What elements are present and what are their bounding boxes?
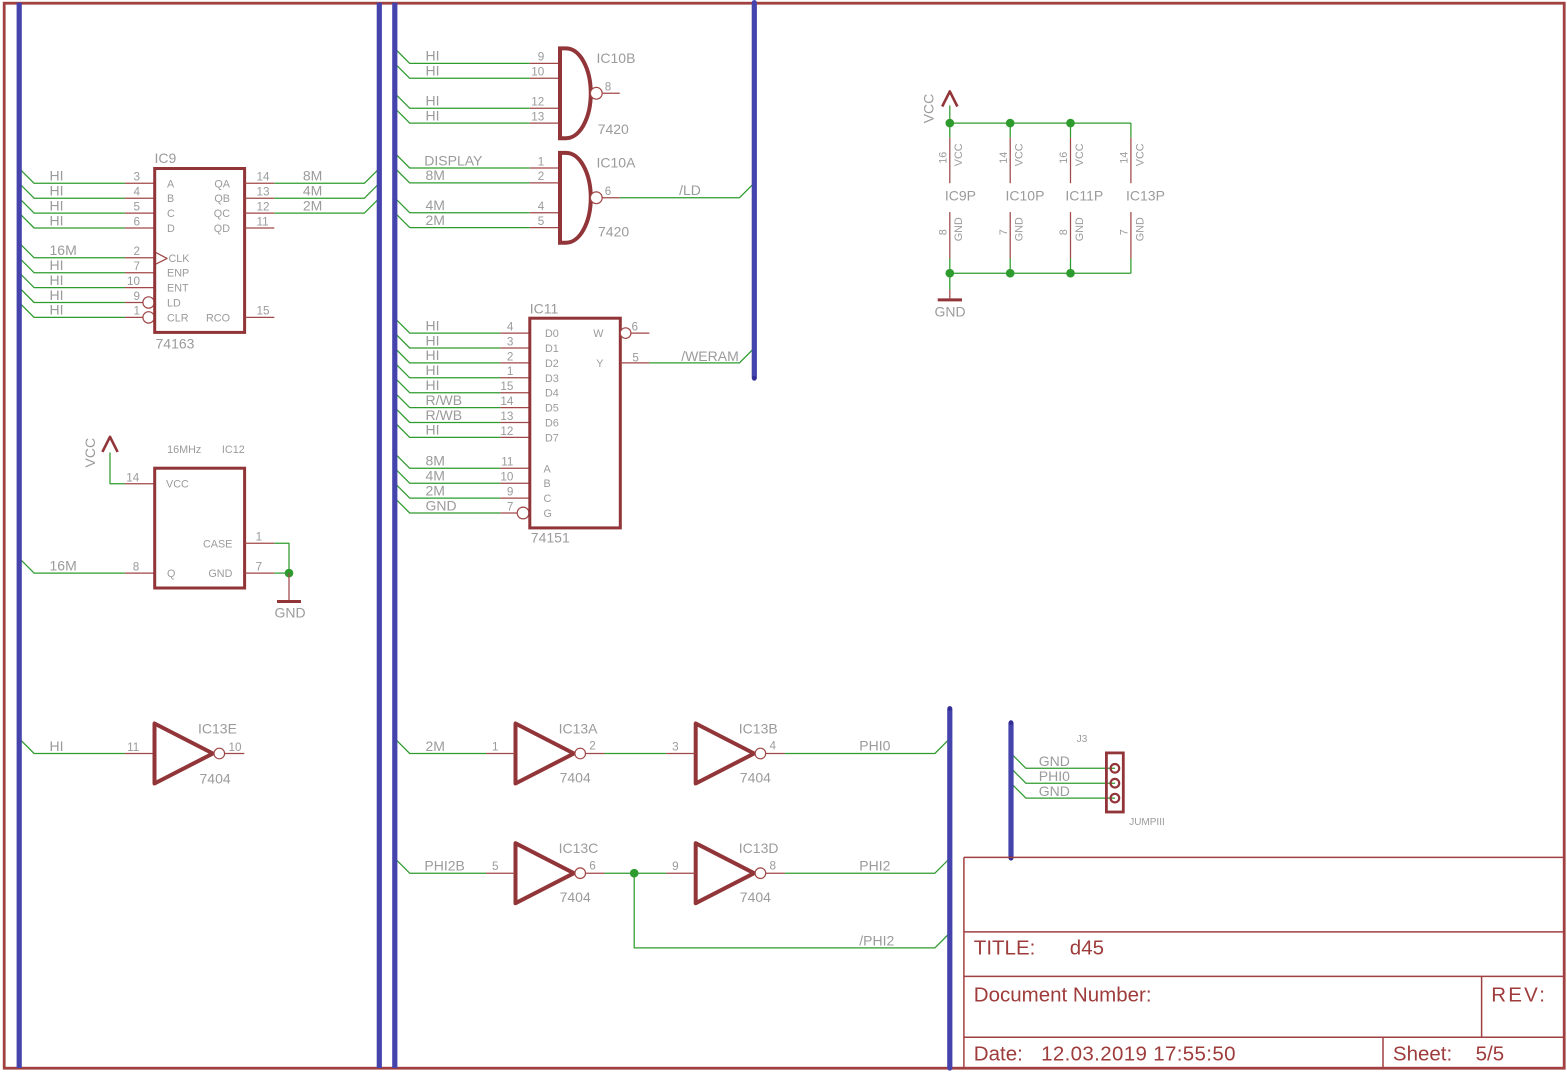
wire GND drop IC11P bbox=[1070, 259, 1072, 274]
wire VCC stem bbox=[949, 106, 951, 124]
wire IC12 CASE to GND bbox=[274, 543, 289, 573]
svg-text:14: 14 bbox=[500, 395, 514, 408]
pin 8 IC11P GND bbox=[1058, 212, 1086, 258]
svg-text:G: G bbox=[544, 508, 552, 520]
ground GND symbol (rail) bbox=[935, 290, 966, 320]
bus upper right vertical bbox=[752, 3, 757, 381]
pin 6 IC13C output bbox=[586, 872, 605, 874]
svg-text:7: 7 bbox=[1119, 229, 1131, 235]
svg-text:CLK: CLK bbox=[169, 253, 191, 265]
svg-text:4M: 4M bbox=[426, 197, 445, 213]
svg-text:16: 16 bbox=[937, 152, 949, 164]
svg-text:HI: HI bbox=[50, 212, 64, 228]
svg-text:LD: LD bbox=[167, 298, 181, 310]
svg-text:ENT: ENT bbox=[167, 283, 189, 295]
wire HI to IC10B pin 9 bbox=[395, 49, 530, 64]
pin 3 IC13B input bbox=[666, 753, 696, 755]
wire HI to IC11 pin 4 (D0) bbox=[395, 318, 501, 333]
pin 2 IC9 CLK bbox=[125, 257, 155, 259]
svg-text:8: 8 bbox=[770, 859, 777, 872]
svg-text:D2: D2 bbox=[545, 358, 559, 370]
svg-text:13: 13 bbox=[531, 110, 544, 123]
wire HI to IC9 pin 7 (ENP) bbox=[19, 258, 125, 273]
svg-text:2M: 2M bbox=[426, 212, 445, 228]
NAND gate IC10B 7420 body bbox=[558, 48, 602, 138]
svg-text:HI: HI bbox=[50, 183, 64, 199]
wire HI to IC11 pin 12 (D7) bbox=[395, 423, 501, 438]
wire HI to IC11 pin 1 (D3) bbox=[395, 363, 501, 378]
svg-text:ENP: ENP bbox=[167, 268, 189, 280]
svg-text:6: 6 bbox=[632, 321, 639, 334]
pin 1 IC12 CASE bbox=[245, 542, 275, 544]
pin 1 IC13A input bbox=[486, 753, 516, 755]
svg-text:14: 14 bbox=[998, 152, 1010, 164]
svg-text:7: 7 bbox=[133, 260, 140, 273]
pin 14 IC9 QA bbox=[245, 182, 275, 184]
pin 14 IC11 D5 bbox=[500, 407, 529, 409]
svg-text:3: 3 bbox=[672, 740, 679, 753]
svg-text:IC10A: IC10A bbox=[597, 155, 637, 171]
svg-text:2M: 2M bbox=[426, 738, 445, 754]
svg-text:12: 12 bbox=[257, 200, 270, 213]
wire R/WB to IC11 pin 14 (D5) bbox=[395, 393, 501, 408]
junction VCC rail 3 bbox=[1066, 119, 1075, 128]
svg-text:IC13P: IC13P bbox=[1126, 188, 1165, 204]
svg-text:D0: D0 bbox=[545, 328, 559, 340]
wire HI to IC9 pin 5 (C) bbox=[19, 198, 125, 213]
svg-text:8M: 8M bbox=[303, 168, 322, 184]
wire HI to IC9 pin 3 (A) bbox=[19, 168, 125, 183]
wire R/WB to IC11 pin 13 (D6) bbox=[395, 408, 501, 423]
svg-text:IC11P: IC11P bbox=[1065, 188, 1103, 204]
title block frame bbox=[964, 857, 1564, 1067]
pin 5 IC13C input bbox=[486, 872, 516, 874]
svg-text:QB: QB bbox=[214, 193, 230, 205]
pin 14 IC12 VCC bbox=[125, 483, 155, 485]
bus middle vertical 1 bbox=[377, 3, 382, 1068]
svg-text:/WERAM: /WERAM bbox=[681, 348, 739, 364]
inverter IC13D 7404 bbox=[696, 843, 766, 903]
pin 11 IC9 QD bbox=[245, 227, 275, 229]
svg-text:8: 8 bbox=[1058, 229, 1070, 235]
wire VCC drop IC13P bbox=[1130, 123, 1132, 138]
svg-text:D5: D5 bbox=[545, 403, 559, 415]
svg-text:1: 1 bbox=[507, 365, 514, 378]
svg-text:IC13C: IC13C bbox=[559, 840, 599, 856]
svg-text:D6: D6 bbox=[545, 418, 559, 430]
svg-text:10: 10 bbox=[127, 275, 141, 288]
svg-text:5: 5 bbox=[133, 200, 140, 213]
ground GND symbol (IC12) bbox=[275, 573, 306, 620]
svg-text:4: 4 bbox=[770, 740, 777, 753]
svg-text:7404: 7404 bbox=[740, 889, 771, 905]
bus middle vertical 2 bbox=[392, 3, 397, 1068]
svg-text:HI: HI bbox=[50, 257, 64, 273]
svg-text:HI: HI bbox=[426, 107, 440, 123]
svg-text:J3: J3 bbox=[1077, 734, 1088, 745]
svg-text:5/5: 5/5 bbox=[1476, 1042, 1505, 1065]
svg-text:2: 2 bbox=[538, 170, 545, 183]
pin 8 IC10B output bbox=[602, 92, 620, 94]
title block Document Number row bbox=[974, 983, 1547, 1006]
pin 5 IC9 C bbox=[125, 212, 155, 214]
wire GND drop IC13P bbox=[1130, 259, 1132, 274]
wire GND to IC11 pin 7 (G) bbox=[395, 498, 501, 513]
svg-text:GND: GND bbox=[426, 497, 457, 513]
pin 14 IC13P VCC bbox=[1119, 138, 1147, 184]
svg-text:VCC: VCC bbox=[82, 438, 98, 468]
svg-text:CLR: CLR bbox=[167, 312, 189, 324]
pin 8 IC9P GND bbox=[937, 212, 965, 258]
pin 10 IC10B bbox=[530, 77, 560, 79]
svg-text:4: 4 bbox=[538, 200, 545, 213]
wire 16M to IC12 pin 8 bbox=[19, 558, 125, 573]
junction GND rail 1 bbox=[946, 269, 955, 278]
wire HI to IC9 pin 1 (CLR) bbox=[19, 303, 125, 318]
wire HI to IC11 pin 2 (D2) bbox=[395, 348, 501, 363]
svg-text:GND: GND bbox=[1134, 217, 1146, 241]
svg-text:3: 3 bbox=[507, 335, 514, 348]
svg-text:Document Number:: Document Number: bbox=[974, 983, 1152, 1006]
pin 7 IC13P GND bbox=[1119, 212, 1147, 258]
pin 7 IC10P GND bbox=[998, 212, 1026, 258]
svg-text:HI: HI bbox=[426, 317, 440, 333]
svg-text:9: 9 bbox=[133, 290, 140, 303]
svg-text:5: 5 bbox=[492, 860, 499, 873]
svg-text:7: 7 bbox=[507, 500, 514, 513]
svg-text:4: 4 bbox=[133, 186, 140, 199]
pin 13 IC9 QB bbox=[245, 197, 275, 199]
wire VCC drop IC9P bbox=[949, 123, 951, 138]
pin 12 IC10B bbox=[530, 107, 560, 109]
pin 16 IC11P VCC bbox=[1058, 138, 1086, 184]
wire GND to J3 pin 1 bbox=[1011, 753, 1115, 768]
svg-text:JUMPIII: JUMPIII bbox=[1129, 817, 1165, 828]
svg-text:R/WB: R/WB bbox=[426, 407, 463, 423]
pin 6 IC10A output bbox=[602, 197, 620, 199]
svg-text:HI: HI bbox=[50, 738, 64, 754]
svg-text:8: 8 bbox=[605, 81, 612, 94]
pin 10 IC11 B bbox=[500, 482, 529, 484]
svg-text:D4: D4 bbox=[545, 388, 559, 400]
wire PHI2B to IC13C pin 5 bbox=[395, 858, 486, 873]
pin 5 IC11 Y output bbox=[620, 362, 649, 364]
bus lower right vertical bbox=[947, 706, 952, 1068]
svg-text:IC10P: IC10P bbox=[1006, 188, 1045, 204]
wire VCC drop IC10P bbox=[1009, 123, 1011, 138]
title block TITLE row bbox=[974, 937, 1104, 960]
svg-text:7420: 7420 bbox=[598, 224, 629, 240]
junction VCC rail 1 bbox=[946, 119, 955, 128]
wire 2M to IC10A pin 5 bbox=[395, 213, 530, 228]
title block Date row bbox=[974, 1042, 1504, 1065]
svg-text:14: 14 bbox=[126, 472, 140, 485]
pin 7 IC9 ENP bbox=[125, 272, 155, 274]
wire GND stem bbox=[949, 273, 951, 289]
pin 15 IC9 RCO bbox=[245, 316, 275, 318]
pin 2 IC11 D2 bbox=[500, 362, 529, 364]
wire HI to IC9 pin 9 (LD) bbox=[19, 288, 125, 303]
svg-text:8M: 8M bbox=[426, 453, 445, 469]
svg-text:QD: QD bbox=[214, 223, 230, 235]
wire /WERAM from IC11 to bus bbox=[649, 348, 754, 363]
pin 11 IC11 A bbox=[500, 467, 529, 469]
junction VCC rail 2 bbox=[1006, 119, 1015, 128]
svg-text:HI: HI bbox=[426, 347, 440, 363]
pin 12 IC9 QC bbox=[245, 212, 275, 214]
svg-text:74163: 74163 bbox=[156, 336, 195, 352]
svg-text:5: 5 bbox=[632, 351, 639, 364]
wire PHI0 from IC13B to bus bbox=[785, 739, 950, 754]
pin 1 IC11 D3 bbox=[500, 377, 529, 379]
svg-text:VCC: VCC bbox=[953, 143, 965, 166]
wire HI to IC13E pin 11 bbox=[19, 739, 125, 754]
wire GND rail bbox=[950, 272, 1131, 274]
svg-text:12: 12 bbox=[531, 96, 544, 109]
svg-text:IC12: IC12 bbox=[222, 444, 245, 456]
svg-text:GND: GND bbox=[275, 605, 306, 621]
svg-text:VCC: VCC bbox=[1134, 143, 1146, 166]
svg-text:GND: GND bbox=[1039, 753, 1070, 769]
inverter IC13C 7404 bbox=[516, 843, 586, 903]
inverter IC13B 7404 bbox=[696, 724, 766, 784]
svg-text:C: C bbox=[167, 208, 175, 220]
svg-text:TITLE:: TITLE: bbox=[974, 937, 1036, 960]
pin 1 IC9 CLR bbox=[125, 316, 143, 318]
svg-text:6: 6 bbox=[589, 859, 596, 872]
svg-text:HI: HI bbox=[50, 272, 64, 288]
wire 4M to IC10A pin 4 bbox=[395, 198, 530, 213]
wire HI to IC9 pin 4 (B) bbox=[19, 183, 125, 198]
svg-text:12.03.2019 17:55:50: 12.03.2019 17:55:50 bbox=[1041, 1042, 1236, 1065]
svg-text:2M: 2M bbox=[426, 482, 445, 498]
wire 8M to IC10A pin 2 bbox=[395, 168, 530, 183]
pin 1 IC10A bbox=[530, 167, 560, 169]
svg-text:D1: D1 bbox=[545, 343, 559, 355]
multiplexer IC11 74151 body bbox=[530, 318, 621, 528]
wire HI to IC10B pin 12 bbox=[395, 93, 530, 108]
svg-text:QA: QA bbox=[214, 178, 230, 190]
svg-text:HI: HI bbox=[426, 362, 440, 378]
svg-text:IC13D: IC13D bbox=[739, 840, 779, 856]
svg-text:Y: Y bbox=[596, 358, 603, 370]
wire HI to IC9 pin 6 (D) bbox=[19, 213, 125, 228]
svg-text:HI: HI bbox=[50, 197, 64, 213]
svg-text:PHI0: PHI0 bbox=[1039, 768, 1070, 784]
wire IC12 GND stub bbox=[274, 572, 289, 574]
svg-text:2M: 2M bbox=[303, 197, 322, 213]
svg-text:HI: HI bbox=[426, 332, 440, 348]
pin 9 IC13D input bbox=[666, 872, 696, 874]
wire VCC drop IC11P bbox=[1070, 123, 1072, 138]
svg-text:/PHI2: /PHI2 bbox=[859, 932, 894, 948]
svg-text:6: 6 bbox=[605, 185, 612, 198]
pin 4 IC13B output bbox=[766, 753, 785, 755]
svg-text:A: A bbox=[544, 463, 552, 475]
pin 5 IC10A bbox=[530, 227, 560, 229]
svg-text:14: 14 bbox=[1119, 152, 1131, 164]
svg-text:IC13B: IC13B bbox=[739, 720, 778, 736]
junction GND rail 3 bbox=[1066, 269, 1075, 278]
svg-text:D7: D7 bbox=[545, 432, 559, 444]
svg-text:7404: 7404 bbox=[740, 769, 771, 785]
svg-text:d45: d45 bbox=[1070, 937, 1104, 960]
pin 11 IC13E input bbox=[125, 753, 155, 755]
svg-text:HI: HI bbox=[426, 48, 440, 64]
svg-text:7: 7 bbox=[998, 229, 1010, 235]
svg-text:16M: 16M bbox=[50, 242, 77, 258]
oscillator IC12 body bbox=[155, 468, 245, 588]
svg-text:HI: HI bbox=[426, 422, 440, 438]
svg-text:D: D bbox=[167, 223, 175, 235]
pin 4 IC11 D0 bbox=[500, 332, 529, 334]
pin 3 IC9 A bbox=[125, 182, 155, 184]
svg-text:W: W bbox=[593, 328, 604, 340]
pin 16 IC9P VCC bbox=[937, 138, 965, 184]
pin 9 IC10B bbox=[530, 62, 560, 64]
junction GND rail 2 bbox=[1006, 269, 1015, 278]
svg-text:11: 11 bbox=[127, 741, 139, 754]
inverter IC13E 7404 bbox=[155, 724, 225, 784]
wire HI to IC11 pin 15 (D4) bbox=[395, 378, 501, 393]
svg-text:GND: GND bbox=[208, 568, 232, 580]
wire GND to J3 pin 3 bbox=[1011, 783, 1115, 798]
svg-text:HI: HI bbox=[426, 63, 440, 79]
pin 6 IC9 D bbox=[125, 227, 155, 229]
wire IC13A out to IC13B in bbox=[605, 753, 667, 755]
bus J3 vertical bbox=[1009, 720, 1014, 860]
svg-text:7404: 7404 bbox=[560, 889, 591, 905]
pin 4 IC10A bbox=[530, 212, 560, 214]
svg-text:B: B bbox=[167, 193, 174, 205]
pin 3 IC11 D1 bbox=[500, 347, 529, 349]
wire 2M from IC9 to bus bbox=[274, 198, 379, 213]
svg-text:8: 8 bbox=[937, 229, 949, 235]
svg-text:HI: HI bbox=[50, 168, 64, 184]
svg-text:74151: 74151 bbox=[531, 530, 570, 546]
counter IC9 74163 body bbox=[155, 169, 245, 333]
svg-text:16MHz: 16MHz bbox=[167, 444, 201, 456]
svg-text:15: 15 bbox=[257, 305, 271, 318]
junction IC13C output bbox=[630, 869, 639, 878]
svg-text:7420: 7420 bbox=[598, 121, 629, 137]
svg-text:4M: 4M bbox=[303, 183, 322, 199]
svg-text:GND: GND bbox=[1074, 217, 1086, 241]
svg-text:RCO: RCO bbox=[206, 312, 230, 324]
wire /PHI2 feedback to bus bbox=[634, 873, 950, 948]
svg-text:GND: GND bbox=[1039, 783, 1070, 799]
svg-text:B: B bbox=[544, 478, 551, 490]
power VCC symbol (IC12) bbox=[82, 437, 118, 468]
svg-text:REV:: REV: bbox=[1491, 983, 1547, 1006]
svg-text:1: 1 bbox=[133, 305, 140, 318]
svg-text:3: 3 bbox=[133, 171, 140, 184]
wire VCC rail bbox=[950, 122, 1131, 124]
svg-text:Q: Q bbox=[167, 568, 175, 580]
svg-text:IC9: IC9 bbox=[155, 150, 177, 166]
svg-text:5: 5 bbox=[538, 215, 545, 228]
wire 2M to IC11 pin 9 (C) bbox=[395, 483, 501, 498]
svg-text:PHI0: PHI0 bbox=[859, 738, 890, 754]
svg-text:2: 2 bbox=[507, 350, 514, 363]
svg-text:7: 7 bbox=[256, 560, 263, 573]
wire HI to IC9 pin 10 (ENT) bbox=[19, 273, 125, 288]
svg-text:DISPLAY: DISPLAY bbox=[424, 152, 483, 168]
wire /LD from IC10A to bus bbox=[620, 183, 755, 198]
svg-text:13: 13 bbox=[257, 186, 270, 199]
svg-text:7404: 7404 bbox=[560, 769, 591, 785]
svg-text:2: 2 bbox=[133, 245, 140, 258]
pin 2 IC10A bbox=[530, 182, 560, 184]
svg-text:10: 10 bbox=[531, 66, 545, 79]
svg-text:10: 10 bbox=[500, 471, 514, 484]
svg-text:1: 1 bbox=[538, 155, 545, 168]
pin 7 IC12 GND bbox=[245, 572, 275, 574]
inverter IC13A 7404 bbox=[516, 724, 586, 784]
svg-text:8M: 8M bbox=[426, 167, 445, 183]
svg-text:1: 1 bbox=[492, 740, 499, 753]
svg-text:VCC: VCC bbox=[921, 94, 937, 124]
svg-text:HI: HI bbox=[426, 93, 440, 109]
junction at IC12 GND bbox=[285, 569, 294, 578]
svg-text:6: 6 bbox=[133, 215, 140, 228]
wire VCC to IC12 pin 14 bbox=[110, 453, 125, 484]
pin 10 IC13E output bbox=[225, 753, 245, 755]
svg-text:9: 9 bbox=[538, 51, 545, 64]
svg-text:16: 16 bbox=[1058, 152, 1070, 164]
wire 4M to IC11 pin 10 (B) bbox=[395, 468, 501, 483]
svg-text:1: 1 bbox=[256, 531, 263, 544]
svg-text:QC: QC bbox=[214, 208, 230, 220]
power VCC symbol (rail) bbox=[921, 91, 958, 123]
svg-text:13: 13 bbox=[500, 410, 513, 423]
svg-text:GND: GND bbox=[953, 217, 965, 241]
wire GND drop IC9P bbox=[949, 259, 951, 274]
wire HI to IC11 pin 3 (D1) bbox=[395, 333, 501, 348]
connector J3 JUMPIII body bbox=[1106, 753, 1123, 812]
svg-text:PHI2B: PHI2B bbox=[424, 858, 464, 874]
svg-text:IC11: IC11 bbox=[530, 301, 559, 317]
svg-text:4: 4 bbox=[507, 321, 514, 334]
svg-text:VCC: VCC bbox=[166, 479, 189, 491]
wire PHI0 to J3 pin 2 bbox=[1011, 768, 1115, 783]
pin 4 IC9 B bbox=[125, 197, 155, 199]
wire 2M to IC13A pin 1 bbox=[395, 739, 486, 754]
pin 14 IC10P VCC bbox=[998, 138, 1026, 184]
svg-text:11: 11 bbox=[501, 456, 513, 469]
svg-text:12: 12 bbox=[500, 425, 513, 438]
wire 8M from IC9 to bus bbox=[274, 168, 379, 183]
wire 16M to IC9 pin 2 (CLK) bbox=[19, 243, 125, 258]
svg-text:HI: HI bbox=[50, 302, 64, 318]
pin 6 IC11 W output bbox=[620, 328, 631, 339]
pin 8 IC13D output bbox=[766, 872, 785, 874]
svg-text:D3: D3 bbox=[545, 373, 559, 385]
svg-text:10: 10 bbox=[229, 741, 243, 754]
pin 9 IC9 LD bbox=[125, 302, 143, 304]
svg-text:HI: HI bbox=[50, 287, 64, 303]
pin 10 IC9 ENT bbox=[125, 287, 155, 289]
wire 4M from IC9 to bus bbox=[274, 183, 379, 198]
svg-text:15: 15 bbox=[500, 380, 514, 393]
pin 12 IC11 D7 bbox=[500, 436, 529, 438]
pin 8 IC12 Q bbox=[125, 572, 155, 574]
bus left vertical bbox=[17, 3, 22, 1068]
svg-text:7404: 7404 bbox=[200, 770, 231, 786]
wire HI to IC10B pin 13 bbox=[395, 108, 530, 123]
wire 8M to IC11 pin 11 (A) bbox=[395, 453, 501, 468]
svg-text:VCC: VCC bbox=[1014, 143, 1026, 166]
